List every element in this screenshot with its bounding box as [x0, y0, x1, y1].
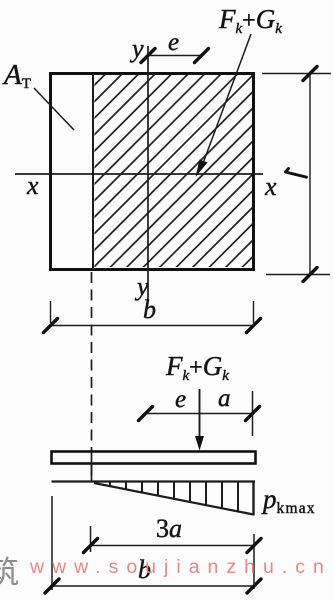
svg-text:a: a	[218, 385, 231, 412]
y axis	[147, 46, 149, 302]
svg-text:x: x	[26, 171, 39, 200]
svg-text:pkmax: pkmax	[261, 484, 316, 517]
leader arrow to load point	[196, 34, 252, 177]
x axis	[15, 173, 263, 175]
dim b (elevation)	[45, 496, 261, 593]
dim e (plan)	[141, 29, 209, 63]
red watermark	[30, 556, 332, 579]
svg-text:x: x	[264, 172, 277, 201]
svg-text:3a: 3a	[156, 514, 182, 543]
dashed projection line	[91, 272, 93, 481]
pressure diagram base line	[52, 480, 256, 482]
leader A_T	[34, 88, 74, 130]
load arrow	[195, 389, 204, 451]
pressure hypotenuse	[94, 483, 254, 515]
svg-text:y: y	[129, 34, 144, 63]
footing slab (elevation)	[52, 452, 256, 464]
svg-text:AT: AT	[2, 59, 31, 92]
svg-text:e: e	[168, 29, 179, 56]
dim l (right side)	[262, 67, 331, 282]
pressure right edge	[252, 482, 254, 516]
plan hatched area (footing in contact)	[0, 59, 333, 269]
svg-text:Fk+Gk: Fk+Gk	[218, 4, 282, 37]
svg-text:b: b	[143, 295, 156, 324]
dim b (plan)	[44, 295, 261, 333]
svg-text:Fk+Gk: Fk+Gk	[165, 351, 229, 384]
dim 3a	[84, 514, 262, 589]
footing outline (plan)	[51, 74, 254, 270]
svg-text:e: e	[175, 386, 186, 413]
gray character (left edge)	[0, 547, 19, 592]
hatch boundary line	[92, 74, 94, 270]
dim e and a (elevation)	[139, 385, 260, 436]
projection through slab	[91, 452, 93, 481]
pressure hatch verticals	[110, 483, 238, 512]
